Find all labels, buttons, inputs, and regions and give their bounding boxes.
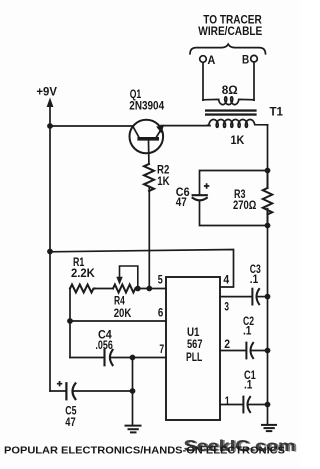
svg-text:.056: .056 xyxy=(95,338,113,352)
svg-text:WIRE/CABLE: WIRE/CABLE xyxy=(198,24,262,38)
wire pin6 xyxy=(70,320,166,322)
svg-text:1K: 1K xyxy=(231,133,245,147)
potentiometer R4 xyxy=(113,266,138,293)
wire R1 to R4 xyxy=(95,288,113,290)
capacitor C6 electrolytic xyxy=(193,195,207,200)
svg-text:47: 47 xyxy=(176,195,187,209)
resistor R2 xyxy=(144,164,154,191)
node C4/pin7 junction xyxy=(130,355,136,361)
capacitor C1 xyxy=(243,397,250,413)
wire B to secondary xyxy=(253,62,255,100)
svg-text:47: 47 xyxy=(65,415,76,429)
terminal A xyxy=(200,56,207,63)
svg-text:B: B xyxy=(242,53,249,67)
wire pin3 xyxy=(220,296,251,298)
svg-text:567: 567 xyxy=(187,337,203,351)
svg-text:.1: .1 xyxy=(244,378,253,392)
IC U1 rectangle xyxy=(166,277,220,420)
node C5 junction xyxy=(130,388,136,394)
svg-text:2N3904: 2N3904 xyxy=(129,99,164,113)
wire to C4 xyxy=(70,357,104,359)
wire Q1 emitter to T1 primary xyxy=(161,125,210,127)
node +9V junction xyxy=(47,123,53,129)
svg-text:A: A xyxy=(208,53,216,67)
svg-text:1K: 1K xyxy=(157,174,170,188)
svg-text:2: 2 xyxy=(224,337,230,351)
resistor R3 xyxy=(263,171,272,226)
transistor Q1 xyxy=(130,120,165,164)
node C1 rail xyxy=(265,402,271,408)
wire +9V rail left vertical xyxy=(49,126,51,391)
node pin4 takeoff xyxy=(47,249,53,255)
resistor R1 xyxy=(70,285,95,293)
wire R2 to pin5 node xyxy=(148,187,150,289)
node pin6 branch xyxy=(67,318,73,324)
svg-text:6: 6 xyxy=(158,306,164,320)
svg-text:2.2K: 2.2K xyxy=(71,266,95,280)
node C3 rail xyxy=(265,294,271,300)
svg-text:+9V: +9V xyxy=(36,85,57,99)
brace to tracer xyxy=(190,44,266,54)
terminal B xyxy=(251,55,258,62)
ground right xyxy=(262,425,276,431)
transformer T1 core xyxy=(205,109,257,115)
capacitor C2 xyxy=(246,343,253,359)
wire C2 to rail xyxy=(251,350,268,352)
node C2 rail xyxy=(265,348,271,354)
ground left xyxy=(126,426,141,433)
transformer T1 primary winding 1K xyxy=(208,120,268,128)
svg-text:5: 5 xyxy=(158,273,163,287)
wire pin5 xyxy=(135,288,166,290)
wire C1 to rail xyxy=(248,404,268,406)
svg-text:.1: .1 xyxy=(250,272,259,286)
wire C4 to pin7 xyxy=(111,357,167,359)
label plus C6 xyxy=(204,183,209,188)
svg-text:T1: T1 xyxy=(270,105,284,119)
wire pin2 xyxy=(220,350,245,352)
capacitor C4 xyxy=(105,350,113,366)
wire C4 branch down xyxy=(69,321,71,358)
wire C6 bottom xyxy=(200,201,268,226)
wire right rail xyxy=(267,226,269,424)
transformer T1 secondary winding 8ohm xyxy=(203,97,254,105)
node R3/C6 bottom xyxy=(265,223,271,229)
svg-text:270Ω: 270Ω xyxy=(233,198,257,212)
wire down to C5 node xyxy=(132,358,134,392)
svg-text:20K: 20K xyxy=(114,306,132,320)
svg-text:PLL: PLL xyxy=(186,350,202,364)
svg-text:3: 3 xyxy=(224,299,229,313)
label plus C5 xyxy=(57,381,62,386)
svg-text:.1: .1 xyxy=(243,324,252,338)
svg-text:7: 7 xyxy=(159,342,164,356)
wire +9V to Q1 collector xyxy=(50,125,133,127)
wire C3 to rail xyxy=(257,296,268,298)
wire C6 top xyxy=(200,171,268,194)
svg-text:1: 1 xyxy=(225,394,230,408)
wire T1 primary to right rail xyxy=(267,125,269,171)
svg-text:4: 4 xyxy=(223,273,229,287)
node R4 wiper junction xyxy=(135,286,141,292)
wire pin4 feed from +9V rail xyxy=(50,250,234,288)
svg-text:8Ω: 8Ω xyxy=(222,83,238,97)
capacitor C5 electrolytic xyxy=(66,383,75,399)
wire R1 left leg down xyxy=(69,289,71,322)
node T1/R3/C6 top xyxy=(265,168,271,174)
capacitor C3 xyxy=(252,289,259,305)
node R2 junction pin5 xyxy=(146,286,152,292)
wire rail to C5 xyxy=(50,390,65,392)
wire C5 to node xyxy=(74,390,133,392)
wire A to secondary xyxy=(202,62,204,100)
wire pin1 xyxy=(220,404,242,406)
wire down to ground left xyxy=(132,391,134,425)
svg-text:SeekIC.com: SeekIC.com xyxy=(186,439,298,456)
+9V supply arrow xyxy=(47,98,54,127)
